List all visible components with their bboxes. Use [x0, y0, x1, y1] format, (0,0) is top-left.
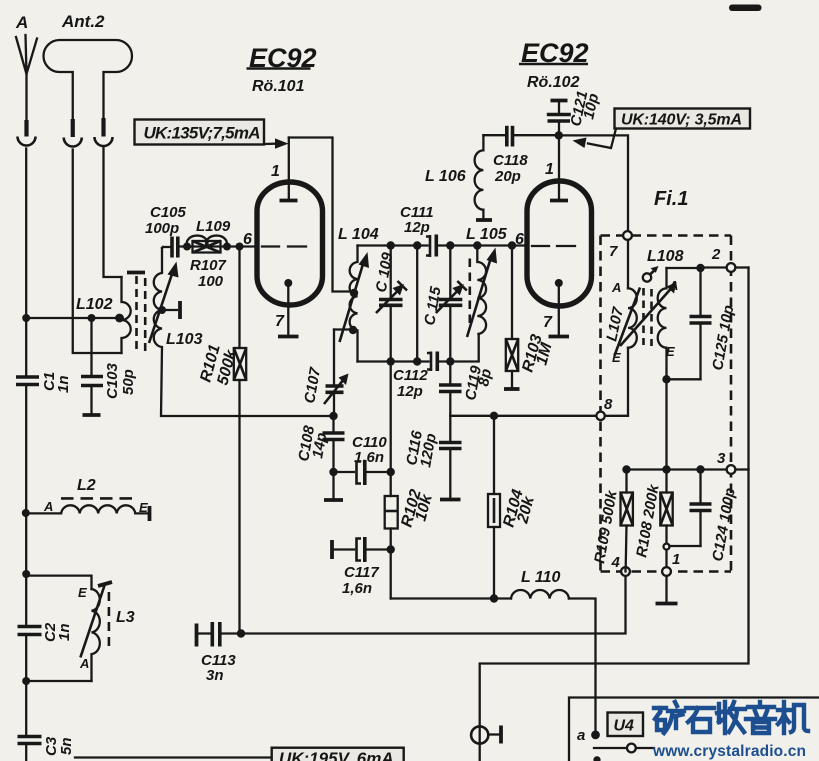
output plug circle — [471, 726, 488, 743]
svg-text:14p: 14p — [309, 431, 330, 459]
resistor R109 — [591, 470, 633, 568]
svg-text:L 105: L 105 — [466, 226, 508, 243]
label box UK:140V;3,5mA — [615, 109, 751, 129]
svg-text:A: A — [668, 278, 678, 293]
wire terminal to right — [636, 747, 654, 749]
capacitor C124 — [670, 470, 739, 563]
antenna A symbol — [15, 13, 37, 146]
svg-text:L 104: L 104 — [338, 226, 379, 243]
bottom wire left — [391, 597, 511, 599]
lower tank wire — [358, 334, 479, 362]
node bus R103 — [508, 241, 516, 249]
svg-text:Fi.1: Fi.1 — [654, 188, 688, 210]
wire Ant.2 left leg down — [73, 150, 122, 354]
trimmer C109 — [373, 246, 407, 362]
svg-text:2: 2 — [711, 246, 721, 263]
wire rail to C1 — [25, 318, 27, 375]
svg-text:L103: L103 — [166, 331, 203, 348]
svg-text:E: E — [78, 585, 87, 600]
svg-text:A: A — [611, 280, 621, 295]
node R108/C124 circle — [664, 544, 670, 550]
trimmer C115 — [421, 246, 467, 362]
svg-text:6: 6 — [515, 231, 524, 248]
node C2/L3 loop top — [22, 570, 30, 578]
node C107/C108/L103 junction — [329, 412, 337, 420]
capacitor C2 — [18, 622, 74, 642]
node R104 top — [490, 412, 498, 420]
svg-text:12p: 12p — [404, 219, 430, 236]
svg-text:Rö.101: Rö.101 — [252, 78, 305, 95]
arrow L103 adjust — [149, 262, 179, 344]
capacitor C121 — [547, 89, 602, 135]
node lower wire link — [413, 357, 421, 365]
wire anode node to Fi1 pin7 riser — [559, 135, 628, 231]
label box UK:135V;7,5mA — [135, 120, 265, 145]
pin 1 — [662, 567, 671, 576]
node R109 top — [622, 465, 630, 473]
inductor L104 variable — [338, 226, 379, 362]
inductor L3 variable — [78, 582, 135, 681]
svg-text:E: E — [666, 344, 675, 359]
node tube2 anode — [555, 131, 563, 139]
svg-text:L109: L109 — [196, 218, 231, 235]
wire rail bottom edge — [25, 745, 27, 761]
wire L110 to node a — [569, 599, 596, 735]
wire loop top to L3 — [26, 576, 91, 589]
svg-text:C112: C112 — [393, 367, 428, 384]
svg-text:4: 4 — [611, 554, 621, 571]
core dashed lines L102/L103 — [135, 276, 138, 350]
svg-text:L 106: L 106 — [425, 168, 466, 185]
node C107 tap — [349, 326, 357, 334]
label box UK:195V 6mA — [272, 748, 404, 761]
node a — [591, 731, 600, 740]
inductor L107 — [603, 240, 640, 416]
resistor R104 — [488, 416, 538, 599]
svg-text:100p: 100p — [145, 220, 179, 237]
svg-text:a: a — [577, 727, 585, 744]
svg-text:C 115: C 115 — [421, 285, 445, 327]
svg-text:C103: C103 — [104, 362, 121, 399]
wire C119 to pin 8 — [450, 415, 596, 417]
variable capacitor C107 — [301, 330, 348, 417]
node C125 bottom — [662, 375, 670, 383]
node loop bottom — [22, 677, 30, 685]
wire antenna bus to L102 tap — [26, 317, 119, 319]
wire Fi1 lower bus — [627, 468, 727, 470]
capacitor C108 — [295, 416, 344, 500]
node L2 — [22, 509, 30, 517]
wire C125 bottom to L108 — [667, 378, 701, 380]
svg-text:8p: 8p — [475, 367, 495, 387]
wire antenna A down to node — [25, 149, 27, 319]
svg-text:U4: U4 — [614, 718, 635, 735]
capacitor C105 — [145, 204, 187, 258]
svg-text:1: 1 — [271, 163, 280, 180]
svg-text:C124 100p: C124 100p — [709, 487, 739, 563]
wire pin2 to rail — [735, 266, 748, 268]
wire C105 to tube1 grid — [180, 245, 259, 247]
arrow UK140 to anode node — [573, 129, 617, 149]
capacitor C125 — [690, 268, 738, 379]
wire pin1 to ground — [665, 576, 667, 601]
wire rail C2 — [25, 574, 27, 626]
svg-text:1: 1 — [545, 161, 554, 178]
node antenna rail — [22, 314, 30, 322]
svg-text:C105: C105 — [150, 204, 187, 221]
tube V1 EC92 Ro.101 — [247, 43, 323, 337]
svg-text:7: 7 — [609, 243, 618, 260]
node C110 left — [329, 468, 337, 476]
svg-text:R107: R107 — [190, 257, 227, 274]
svg-text:1n: 1n — [56, 623, 73, 641]
pin 3 — [727, 465, 736, 474]
inductor L109 — [187, 218, 231, 246]
wire Ant.2 right leg down — [104, 148, 122, 277]
svg-text:5n: 5n — [58, 737, 75, 755]
inductor L106 — [425, 135, 492, 220]
wire rail C1 to L2 node — [25, 386, 27, 574]
svg-text:C125 10p: C125 10p — [709, 304, 737, 372]
svg-text:1,6n: 1,6n — [342, 580, 372, 597]
node L103 tap — [158, 306, 166, 314]
svg-text:C118: C118 — [493, 152, 528, 169]
inductor L103 variable — [154, 248, 334, 416]
wire pin4 riser into box — [624, 567, 626, 571]
wire L103 tap stub — [162, 309, 177, 311]
node L109 right — [223, 243, 231, 251]
svg-text:www.crystalradio.cn: www.crystalradio.cn — [652, 743, 806, 760]
wire node to pin2 — [701, 266, 727, 268]
pin 4 — [621, 567, 630, 576]
svg-text:C117: C117 — [344, 564, 379, 581]
svg-text:L102: L102 — [76, 296, 113, 313]
inductor L108 variable — [620, 248, 701, 470]
node bus L105 — [473, 241, 481, 249]
node L108 top / C125 — [696, 264, 704, 272]
svg-text:12p: 12p — [397, 383, 423, 400]
svg-text:C 109: C 109 — [373, 251, 397, 294]
capacitor C111 — [400, 204, 436, 257]
node R101 top — [236, 243, 244, 251]
grid bus tube2 — [358, 244, 428, 246]
svg-text:6: 6 — [243, 231, 252, 248]
wire link vertical — [416, 246, 418, 362]
svg-text:3: 3 — [717, 450, 726, 467]
node C124 top — [696, 465, 704, 473]
pin 8 — [596, 412, 604, 420]
wire tube1 anode to L104 tap — [289, 138, 352, 292]
node bottom edge — [593, 756, 600, 761]
pin 7 — [623, 231, 632, 240]
node lower wire C109 — [387, 357, 395, 365]
wire rail to C3 — [25, 681, 27, 735]
svg-text:50p: 50p — [120, 369, 137, 395]
wire C113 to pin4 riser — [241, 576, 626, 634]
node lower wire C115/C119 — [446, 357, 454, 365]
svg-text:1: 1 — [672, 551, 680, 568]
capacitor C3 — [18, 736, 76, 756]
node L102 tap — [115, 314, 124, 323]
capacitor C110 — [334, 434, 391, 485]
svg-text:Ant.2: Ant.2 — [61, 12, 105, 31]
svg-text:UK:195V, 6mA: UK:195V, 6mA — [279, 749, 394, 761]
svg-text:L 110: L 110 — [521, 569, 561, 586]
svg-text:7: 7 — [275, 313, 285, 330]
capacitor C116 — [403, 416, 461, 500]
core adjust circle symbol — [643, 266, 659, 282]
svg-text:1n: 1n — [55, 375, 72, 393]
pin 2 — [727, 263, 736, 272]
svg-text:C107: C107 — [301, 366, 324, 405]
capacitor C113 — [197, 622, 242, 684]
terminal bar L103 tap — [178, 301, 182, 319]
svg-text:1,6n: 1,6n — [354, 449, 384, 466]
wire circle to pin1 — [665, 550, 667, 568]
label box U4 — [608, 713, 644, 737]
svg-text:8: 8 — [604, 396, 613, 413]
wire with terminal circle — [594, 747, 627, 749]
svg-text:A: A — [43, 499, 53, 514]
wire loop bottom — [26, 636, 91, 681]
wire right rail to output plug — [480, 268, 749, 761]
terminal circle — [627, 744, 636, 753]
scan mark top right — [729, 5, 762, 12]
svg-text:A: A — [15, 13, 28, 32]
capacitor C103 — [81, 318, 137, 415]
svg-text:20p: 20p — [494, 168, 521, 185]
node C110 right — [387, 468, 395, 476]
wire bottom edge stub — [75, 756, 272, 758]
antenna Ant.2 symbol — [44, 12, 133, 146]
resistor R107 — [190, 241, 227, 290]
tube V2 EC92 Ro.102 — [515, 38, 592, 337]
svg-text:Rö.102: Rö.102 — [527, 74, 580, 91]
capacitor C119 — [439, 362, 495, 417]
svg-text:L108: L108 — [647, 248, 684, 265]
svg-text:UK:140V; 3,5mA: UK:140V; 3,5mA — [621, 112, 742, 129]
inductor L105 variable — [466, 226, 508, 337]
wire tank to R102 — [390, 362, 392, 497]
converter box outline U4 area — [569, 698, 819, 761]
watermark logo — [654, 702, 808, 733]
inductor L102 — [76, 277, 131, 353]
resistor R108 — [633, 470, 673, 559]
node L110 left — [490, 594, 498, 602]
node C113 — [237, 629, 245, 637]
core dashed lines L107/L108 — [642, 288, 645, 345]
capacitor C112 — [393, 352, 437, 401]
svg-text:R108 200k: R108 200k — [633, 483, 663, 559]
inductor L2 — [26, 477, 150, 521]
node C103 junction — [88, 314, 96, 322]
screen bar between L102 and L103 — [127, 271, 145, 275]
node L104 anode tap — [350, 289, 358, 297]
wire pin3 to rail — [735, 468, 748, 470]
plug stub and bar — [488, 733, 499, 735]
capacitor C118 — [483, 126, 556, 185]
svg-text:E: E — [139, 500, 148, 515]
svg-text:UK:135V;7,5mA: UK:135V;7,5mA — [144, 124, 261, 143]
node C117 right — [387, 545, 395, 553]
wire C107 tap — [334, 328, 352, 330]
svg-text:A: A — [79, 656, 89, 671]
svg-text:L2: L2 — [77, 477, 96, 494]
resistor R102 — [385, 488, 436, 599]
inductor L110 — [511, 569, 569, 599]
svg-text:L3: L3 — [116, 609, 135, 626]
node R108 top — [662, 465, 670, 473]
ground — [656, 602, 678, 606]
svg-text:7: 7 — [543, 314, 553, 331]
capacitor C1 — [16, 372, 72, 393]
arrow UK135 to anode — [264, 138, 289, 148]
svg-text:3n: 3n — [206, 667, 224, 684]
node L109 left — [183, 243, 191, 251]
capacitor C117 — [332, 537, 391, 597]
node bus link wire — [413, 241, 421, 249]
node bus C109 — [387, 241, 395, 249]
svg-text:100: 100 — [198, 273, 224, 290]
resistor R103 — [504, 246, 556, 390]
svg-text:L107: L107 — [603, 305, 627, 343]
node bus C115 — [446, 241, 454, 249]
resistor R101 — [197, 247, 246, 634]
filter Fi.1 dashed box — [601, 236, 732, 572]
